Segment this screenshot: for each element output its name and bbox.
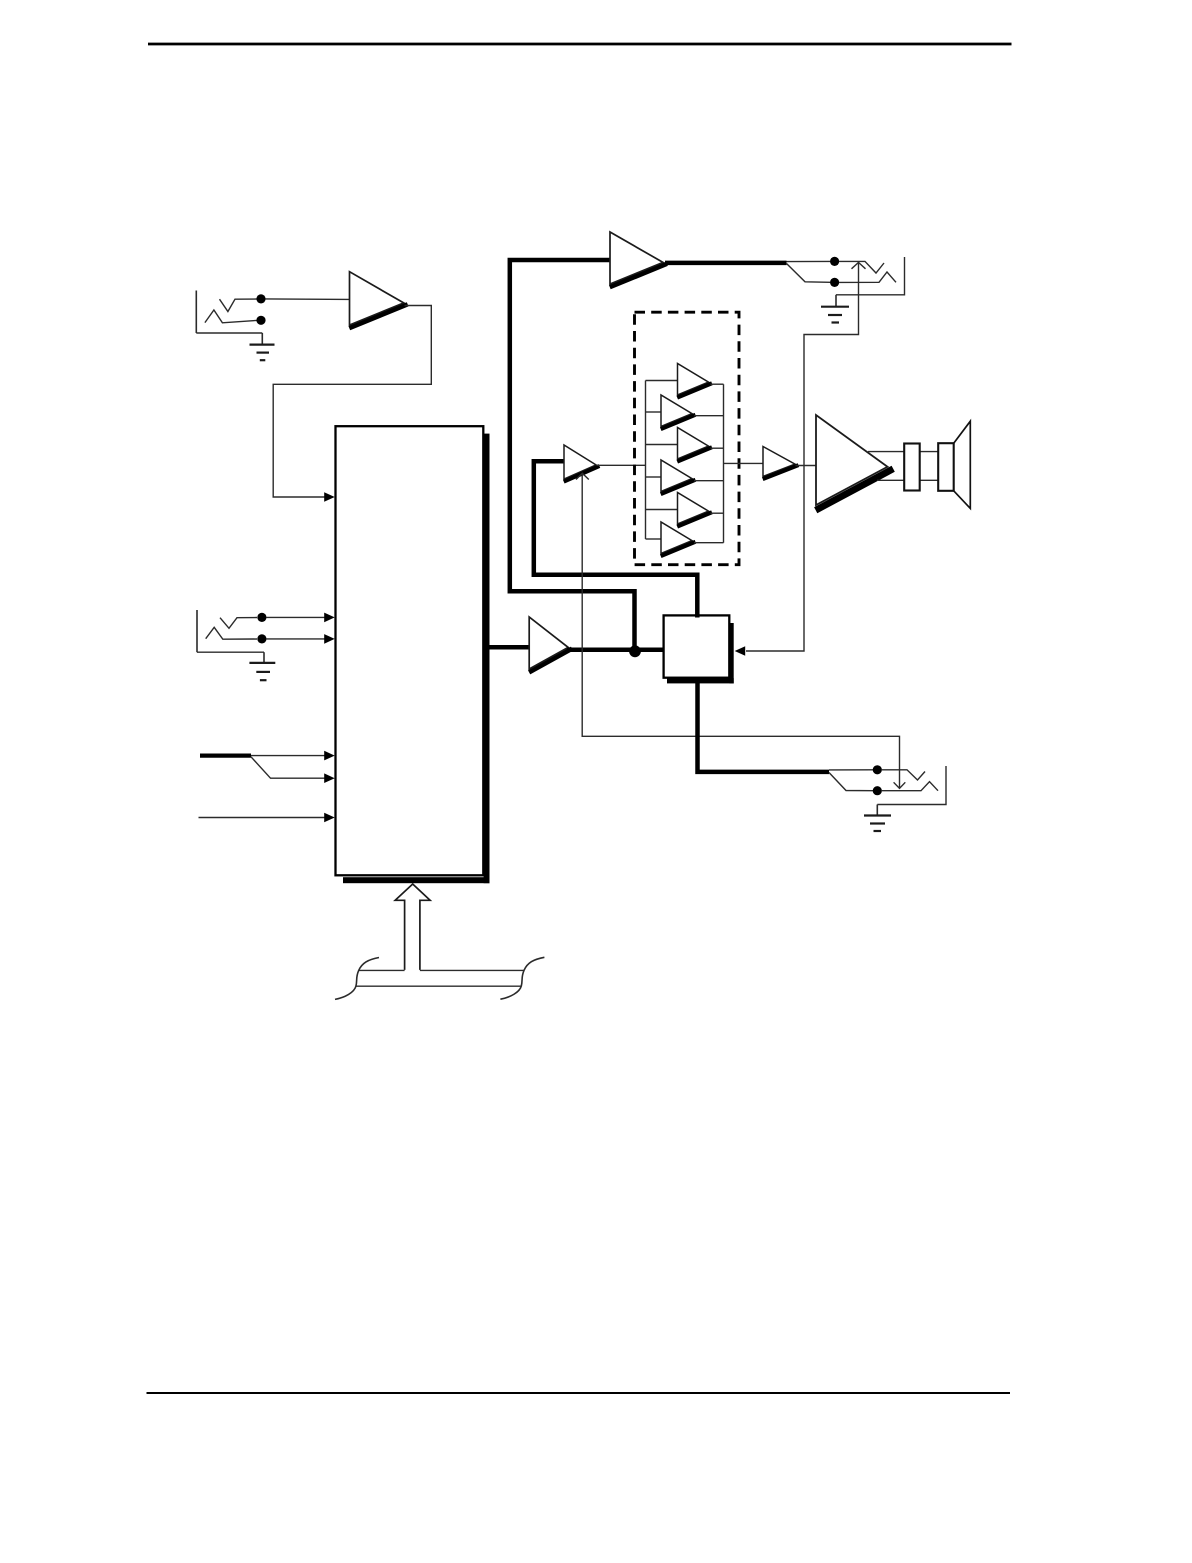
op-amp A6 (attenuator stage 2) — [646, 395, 724, 428]
wire (J2 ring to block input) — [267, 634, 335, 644]
wire (A2 output to mixer input) — [567, 648, 666, 653]
jack J3 (line output, top-right) — [787, 257, 905, 295]
wire (J2 tip to block input) — [267, 613, 335, 623]
wire (J3 switch contact to mixer control input) — [735, 262, 866, 655]
op-amp A5 (attenuator stage 1) — [646, 364, 724, 397]
op-amp A8 (attenuator stage 4) — [646, 460, 724, 493]
ground (jack J4) — [864, 805, 891, 832]
op-amp A4 (programmable attenuator drive) — [564, 445, 598, 481]
op-amp A7 (attenuator stage 3) — [646, 428, 724, 461]
wire (mixer output to jack J4, thick) — [698, 683, 830, 772]
wire (mixer to attenuator amp A4, thick) — [534, 461, 698, 617]
jack J1 (line input, top-left) — [196, 291, 265, 334]
op-amp A11 (speaker pre-amp) — [763, 447, 797, 479]
bus arrow (system bus into block U1) — [395, 884, 430, 970]
wire (A3 output to jack J3, thick) — [665, 261, 787, 266]
system bus (band with break symbols) — [335, 957, 544, 999]
ground (jack J2) — [249, 652, 275, 680]
op-amp A10 (attenuator stage 6) — [646, 522, 724, 555]
wire (junction to headphone amp A3, thick) — [510, 260, 635, 650]
jack J4 (monitor output, bottom-right) — [829, 765, 946, 804]
op-amp A1 (line input buffer) — [350, 272, 406, 328]
block U1 (audio codec / controller) — [336, 426, 490, 883]
ground (jack J1) — [250, 333, 275, 360]
ground (jack J3) — [821, 295, 849, 323]
wire (A11 output to power amp) — [796, 465, 817, 467]
wire (volume control arm from A4 to jack J4 switch) — [576, 473, 905, 788]
wire (mono input to block) — [199, 813, 335, 823]
wire (aux right channel to block) — [251, 757, 335, 783]
op-amp A12 (speaker power amplifier) — [816, 415, 890, 509]
wire (bank output bus) — [723, 384, 725, 543]
wire (bank input bus) — [645, 381, 647, 540]
op-amp A2 (output buffer) — [529, 617, 570, 671]
mixer U2 (analog mixer) — [664, 615, 734, 683]
wire (aux left channel to block) — [251, 751, 335, 761]
op-amp A9 (attenuator stage 5) — [646, 493, 724, 526]
wire (stereo aux input stub) — [200, 753, 251, 757]
wire (A4 output into attenuator bank) — [597, 464, 646, 466]
op-amp A3 (headphone/line-out amp) — [610, 232, 665, 286]
speaker LS1 — [868, 421, 970, 508]
wire (A1 output to codec block input) — [273, 306, 431, 502]
jack J2 (microphone input, left-middle) — [197, 610, 267, 652]
dashed box (attenuator/gain stage bank) — [635, 312, 740, 565]
node (junction of output and headphone feed) — [629, 645, 641, 657]
wire (bank output to amp A11) — [724, 462, 764, 464]
wire (J1 tip to amp A1 input) — [266, 298, 350, 301]
wire (block U1 output, thick) — [483, 645, 529, 650]
